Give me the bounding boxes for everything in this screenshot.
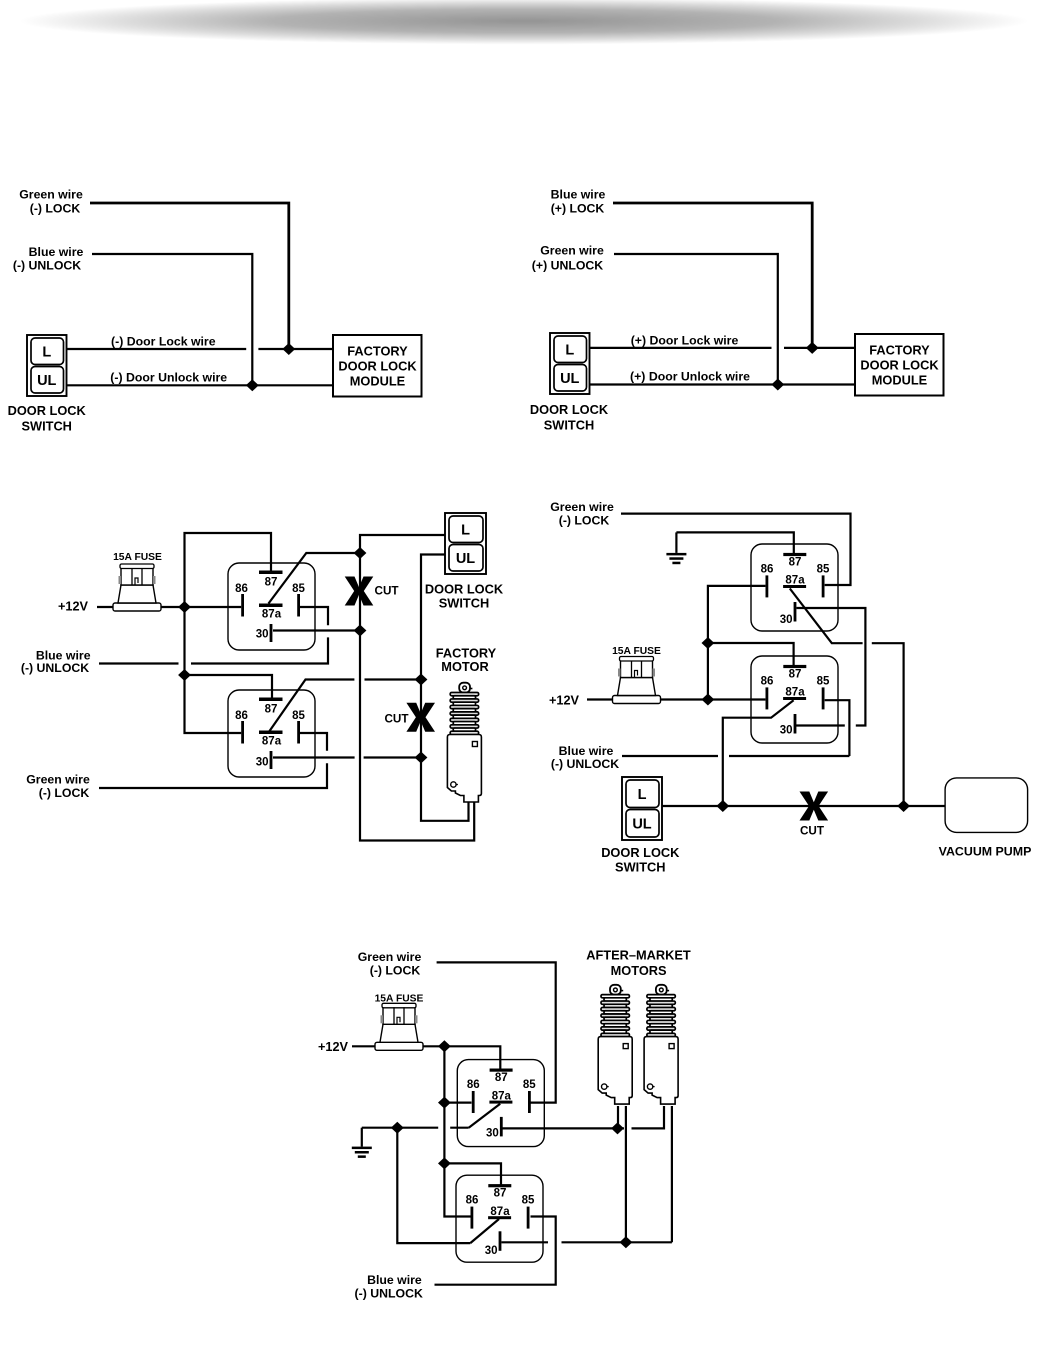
svg-text:+12V: +12V <box>58 600 89 614</box>
relay K3 pin 86 <box>761 564 774 598</box>
svg-text:Blue wire: Blue wire <box>29 245 84 259</box>
wire (-) door lock (left of hop) <box>67 348 246 350</box>
svg-text:(-) LOCK: (-) LOCK <box>559 514 610 528</box>
fuse F2 body <box>613 657 661 704</box>
wire green lock to relay K3 pin 85 <box>621 514 851 585</box>
svg-text:DOOR LOCK: DOOR LOCK <box>601 845 680 860</box>
wire green (+) unlock to unlock-wire junction <box>614 254 778 385</box>
svg-text:(-) LOCK: (-) LOCK <box>39 786 90 800</box>
svg-text:UL: UL <box>632 816 651 832</box>
svg-text:MOTOR: MOTOR <box>441 659 488 674</box>
label Blue wire (+) LOCK (top-right) <box>551 188 606 216</box>
relay K1 pin 30 <box>256 624 273 642</box>
relay K4 switch arm to switch net <box>723 700 794 806</box>
label DOOR LOCK SWITCH (S1) <box>8 403 87 434</box>
junction UL-net / relay K2 arm <box>415 674 428 686</box>
svg-text:Green wire: Green wire <box>550 500 614 514</box>
relay K3 switch arm to vacuum-pump net <box>790 589 863 644</box>
wire blue (-) unlock to unlock-wire junction <box>92 254 252 385</box>
wire relay K3 pin 30 to relay K4 pin 30 <box>797 608 866 726</box>
relay K3 pin 30 <box>780 602 797 626</box>
relay K2 pin 30 <box>256 751 273 769</box>
svg-text:Green wire: Green wire <box>26 773 90 787</box>
svg-text:Green wire: Green wire <box>19 188 83 202</box>
label DOOR LOCK SWITCH (S3) <box>425 582 504 611</box>
relay K6 pin 30 <box>485 1231 502 1257</box>
junction blue/unlock <box>246 379 259 391</box>
svg-text:Blue wire: Blue wire <box>559 744 614 758</box>
wire blue unlock (left of hop) <box>622 755 718 757</box>
relay K2 switch arm wire to UL-net (right of hop) <box>365 678 422 680</box>
relay K6 pin 87a <box>488 1206 511 1219</box>
svg-text:SWITCH: SWITCH <box>439 596 489 611</box>
wire (+) door unlock <box>589 383 855 385</box>
svg-text:L: L <box>42 344 51 360</box>
svg-text:87a: 87a <box>492 1090 512 1102</box>
factory door lock module M2 <box>855 334 944 396</box>
relay K2 body <box>228 690 315 777</box>
svg-text:85: 85 <box>817 676 830 688</box>
svg-text:VACUUM PUMP: VACUUM PUMP <box>939 845 1032 859</box>
wire +12V riser to relays K1/K2 <box>185 533 272 733</box>
wire L-switch net: L contact down through cut to motor <box>360 535 474 841</box>
relay K1 switch arm and wire to L-net <box>269 553 361 604</box>
wire branch to relay K2 pin 87 <box>185 675 273 699</box>
wire UL-switch net: UL contact down through cut to motor <box>421 555 469 821</box>
label Green wire (-) LOCK (bottom) <box>358 950 422 978</box>
relay K5 pin 85 <box>523 1079 536 1113</box>
door lock switch S4 <box>622 777 662 840</box>
relay K2 pin 85 <box>292 710 305 744</box>
svg-text:85: 85 <box>292 710 305 722</box>
relay K5 pin 87a <box>489 1090 512 1103</box>
wire 85-exit riser to relay K1 pin 85 <box>300 607 328 625</box>
relay K3 pin 87a <box>783 575 806 588</box>
wire blue (+) lock to lock-wire junction <box>613 203 812 348</box>
svg-text:L: L <box>565 342 574 358</box>
svg-text:87a: 87a <box>785 687 805 699</box>
wire +12V feed (middle-left) <box>97 606 241 608</box>
label DOOR LOCK SWITCH (S2) <box>530 402 609 433</box>
relay K6 pin 87 <box>488 1184 511 1200</box>
svg-text:30: 30 <box>485 1245 498 1257</box>
relay K5 pin 87 <box>490 1069 513 1085</box>
svg-text:86: 86 <box>761 564 774 576</box>
wire blue unlock (right of hop) <box>729 755 849 757</box>
label FACTORY MOTOR <box>436 646 497 675</box>
svg-text:CUT: CUT <box>384 713 409 726</box>
relay K4 pin 87 <box>783 665 806 681</box>
label Blue wire (-) UNLOCK (middle-right) <box>551 744 619 771</box>
label Green wire (-) LOCK (middle-left) <box>26 773 90 801</box>
wire door lock switch to vacuum pump <box>662 805 945 807</box>
wire ground riser to relay K6 arm <box>397 1128 470 1243</box>
relay K4 pin 87a <box>783 687 806 700</box>
svg-text:(-) UNLOCK: (-) UNLOCK <box>13 259 81 273</box>
wire 30-link continues after hop <box>796 724 845 726</box>
svg-text:FACTORY: FACTORY <box>869 343 930 358</box>
label Blue wire (-) UNLOCK (bottom) <box>355 1273 423 1301</box>
svg-text:L: L <box>461 522 470 538</box>
junction green/lock <box>282 343 295 355</box>
svg-text:15A FUSE: 15A FUSE <box>113 552 162 563</box>
svg-text:86: 86 <box>235 583 248 595</box>
svg-text:SWITCH: SWITCH <box>21 419 71 434</box>
junction riser / K6 87 branch <box>438 1157 451 1169</box>
svg-text:87a: 87a <box>262 736 282 748</box>
relay K1 pin 85 <box>292 583 305 617</box>
relay K1 pin 87 <box>259 571 283 589</box>
svg-text:Green wire: Green wire <box>358 950 422 964</box>
relay K6 body <box>456 1175 543 1262</box>
svg-text:FACTORY: FACTORY <box>347 344 408 359</box>
factory door lock module M1 <box>333 335 422 397</box>
junction K6-30 net / motor1 right pin <box>620 1236 633 1248</box>
wire (-) door unlock <box>67 384 333 386</box>
cut mark X1 <box>345 577 374 606</box>
junction green/unlock <box>771 379 784 391</box>
wire blue unlock run to 85-exit riser <box>191 637 328 663</box>
svg-text:30: 30 <box>486 1127 499 1139</box>
relay K1 pin 87a <box>259 604 283 621</box>
relay K3 pin 85 <box>817 564 830 598</box>
junction riser / K5 86 <box>438 1097 451 1109</box>
svg-text:87: 87 <box>265 577 278 589</box>
vacuum pump <box>945 778 1028 833</box>
svg-text:(+) Door Lock wire: (+) Door Lock wire <box>631 334 739 348</box>
label Green wire (-) LOCK (top-left) <box>19 188 83 216</box>
relay K4 pin 86 <box>761 676 774 710</box>
svg-text:87a: 87a <box>490 1206 510 1218</box>
relay K5 switch arm <box>469 1104 501 1128</box>
relay K4 body <box>751 656 838 743</box>
svg-text:SWITCH: SWITCH <box>615 860 665 875</box>
svg-text:87: 87 <box>789 669 802 681</box>
svg-text:DOOR LOCK: DOOR LOCK <box>338 359 417 374</box>
svg-text:87a: 87a <box>785 575 805 587</box>
svg-text:30: 30 <box>256 757 269 769</box>
junction riser / K4 87 branch <box>702 637 715 649</box>
door lock switch S2 <box>550 333 590 394</box>
top shadow <box>19 0 1029 45</box>
svg-text:UL: UL <box>456 551 475 567</box>
svg-text:DOOR LOCK: DOOR LOCK <box>860 358 939 373</box>
wire K5-30 net after hop to motor 2 left pin <box>632 1106 665 1128</box>
wire motor1 left pin <box>617 1106 619 1128</box>
wire (-) door lock (right of hop) <box>258 348 333 350</box>
svg-text:(+) Door Unlock wire: (+) Door Unlock wire <box>630 370 750 384</box>
svg-text:86: 86 <box>467 1079 480 1091</box>
svg-text:MODULE: MODULE <box>872 373 928 388</box>
wire motor1 right pin to relay K6 pin 30 net <box>625 1106 627 1242</box>
fuse F1 body <box>113 564 161 611</box>
wire branch to relay K4 pin 87 <box>708 643 794 666</box>
junction riser / +12V <box>702 694 715 706</box>
ground G1 <box>666 532 686 564</box>
fuse F3 body <box>375 1003 423 1050</box>
svg-text:UL: UL <box>560 371 579 387</box>
wire +12V feed (middle-right) <box>587 698 765 700</box>
label Green wire (+) UNLOCK (top-right) <box>532 244 604 273</box>
label Blue wire (-) UNLOCK (top-left) <box>13 245 84 273</box>
wire relay K6 pin 85 to blue wire <box>435 1217 556 1285</box>
relay K1 body <box>228 563 315 650</box>
wire (+) door lock (right of hop) <box>784 347 855 349</box>
junction K5-30 net / motor1 left pin <box>611 1122 624 1134</box>
relay K6 pin 85 <box>522 1195 535 1229</box>
wire riser to relays K5/K6 <box>444 1046 470 1216</box>
motor factory motor <box>447 683 481 802</box>
relay K5 body <box>457 1060 544 1147</box>
relay K5 pin 30 <box>486 1117 503 1140</box>
svg-text:(-) Door Lock wire: (-) Door Lock wire <box>111 335 216 349</box>
relay K2 switch arm (left of hop) <box>269 680 354 732</box>
junction switch-net / relay K4 arm <box>716 800 729 812</box>
svg-text:(-) UNLOCK: (-) UNLOCK <box>355 1287 423 1301</box>
wire green lock run to 85-exit riser <box>99 763 327 788</box>
svg-text:(-) LOCK: (-) LOCK <box>30 202 81 216</box>
relay K3 pin 87 <box>783 553 806 569</box>
wire K6-30 run after hop <box>562 1241 672 1243</box>
svg-text:85: 85 <box>523 1079 536 1091</box>
wire relay K2 pin 30 to UL-net (right of hop) <box>364 756 421 758</box>
svg-text:30: 30 <box>780 614 793 626</box>
svg-text:+12V: +12V <box>318 1040 349 1054</box>
label Green wire (-) LOCK (middle-right) <box>550 500 614 528</box>
svg-text:85: 85 <box>292 583 305 595</box>
wire relay K5 pin 30 to motor 1 <box>502 1127 624 1129</box>
svg-text:CUT: CUT <box>375 585 400 598</box>
svg-text:15A FUSE: 15A FUSE <box>612 646 661 657</box>
svg-text:AFTER–MARKET: AFTER–MARKET <box>586 948 691 963</box>
junction +12V / riser <box>438 1040 451 1052</box>
motor aftermarket motor 1 <box>598 985 632 1104</box>
cut mark X2 <box>406 703 435 732</box>
svg-text:87: 87 <box>789 557 802 569</box>
svg-text:DOOR LOCK: DOOR LOCK <box>530 402 609 417</box>
svg-text:Blue wire: Blue wire <box>367 1273 422 1287</box>
svg-text:CUT: CUT <box>800 825 825 838</box>
door lock switch S3 <box>445 513 486 574</box>
svg-text:DOOR LOCK: DOOR LOCK <box>8 403 87 418</box>
relay K4 pin 85 <box>817 676 830 710</box>
junction L-net / relay K1 pin 30 <box>354 625 367 637</box>
motor aftermarket motor 2 <box>644 985 678 1104</box>
door lock switch S1 <box>27 335 67 396</box>
wire motor2 right pin to relay K6 pin 30 net <box>671 1106 673 1242</box>
wire ground to relay K3 pin 87 <box>676 532 793 554</box>
wire 85-exit riser to relay K2 pin 85 <box>300 733 327 751</box>
wire green (-) lock to lock-wire junction <box>90 203 289 349</box>
wire relay K1 pin 30 to L-net <box>273 629 360 631</box>
svg-text:87: 87 <box>495 1072 508 1084</box>
relay K4 pin 30 <box>780 714 797 737</box>
wire +12V feed (bottom) <box>352 1046 500 1069</box>
junction UL-net / relay K2 pin 30 <box>415 752 428 764</box>
junction blue/lock <box>806 342 819 354</box>
wire (+) door lock (left of hop) <box>589 347 772 349</box>
svg-text:Blue wire: Blue wire <box>551 188 606 202</box>
ground G2 <box>352 1128 372 1158</box>
svg-text:(-) Door Unlock wire: (-) Door Unlock wire <box>110 371 227 385</box>
relay K5 pin 86 <box>467 1079 480 1113</box>
relay K2 pin 86 <box>235 710 248 744</box>
svg-text:+12V: +12V <box>549 694 580 708</box>
wire branch to relay K6 pin 87 <box>444 1163 501 1185</box>
svg-text:30: 30 <box>256 629 269 641</box>
label DOOR LOCK SWITCH (S4) <box>601 845 680 875</box>
relay K2 pin 87 <box>259 698 283 716</box>
wire branch relay K5 pin 86 <box>444 1101 471 1103</box>
wire ground run after hop <box>450 1127 469 1129</box>
junction L-net / relay K1 arm <box>354 547 367 559</box>
svg-text:(-) LOCK: (-) LOCK <box>370 964 421 978</box>
wire relay K4 pin 85 to blue wire <box>825 700 850 756</box>
svg-text:30: 30 <box>780 725 793 737</box>
svg-text:(+) UNLOCK: (+) UNLOCK <box>532 259 604 273</box>
wire green lock to relay K5 pin 85 <box>437 962 556 1102</box>
junction switch-net / relay K3 arm <box>897 800 910 812</box>
svg-text:SWITCH: SWITCH <box>544 418 594 433</box>
svg-text:(-) UNLOCK: (-) UNLOCK <box>21 661 89 675</box>
svg-text:87: 87 <box>494 1188 507 1200</box>
svg-text:UL: UL <box>37 373 56 389</box>
svg-text:87: 87 <box>265 704 278 716</box>
svg-text:85: 85 <box>817 564 830 576</box>
wire blue unlock run (left of hop) <box>99 662 179 664</box>
relay K2 pin 87a <box>259 731 283 748</box>
cut mark X3 <box>800 792 829 821</box>
label Blue wire (-) UNLOCK (middle-left) <box>21 649 91 676</box>
svg-text:(+) LOCK: (+) LOCK <box>551 202 605 216</box>
wire ground run to relay K5 arm <box>362 1127 438 1129</box>
svg-text:85: 85 <box>522 1195 535 1207</box>
junction +12V/relay feeds <box>178 601 191 613</box>
svg-text:86: 86 <box>235 710 248 722</box>
wire arm continues (hop) down to pump wire <box>872 643 904 806</box>
relay K3 body <box>751 544 838 631</box>
wire riser relay K3 86 / relay K4 87 <box>708 586 766 700</box>
relay K6 pin 86 <box>466 1195 479 1229</box>
svg-text:MOTORS: MOTORS <box>611 963 667 978</box>
svg-text:MODULE: MODULE <box>350 374 406 389</box>
junction ground run / unlock-return riser <box>391 1122 404 1134</box>
relay K6 switch arm <box>470 1219 499 1243</box>
wire relay K6 pin 30 run <box>502 1241 549 1243</box>
relay K1 pin 86 <box>235 583 248 617</box>
wire relay K2 pin 30 (left of hop) <box>273 756 355 758</box>
label AFTER-MARKET MOTORS <box>586 948 691 979</box>
svg-text:DOOR LOCK: DOOR LOCK <box>425 582 504 597</box>
svg-text:L: L <box>638 787 647 803</box>
svg-text:87a: 87a <box>262 609 282 621</box>
svg-text:86: 86 <box>761 676 774 688</box>
junction riser / relay K2 87 branch <box>178 669 191 681</box>
svg-text:Green wire: Green wire <box>540 244 604 258</box>
svg-text:86: 86 <box>466 1195 479 1207</box>
svg-text:(-) UNLOCK: (-) UNLOCK <box>551 757 619 771</box>
